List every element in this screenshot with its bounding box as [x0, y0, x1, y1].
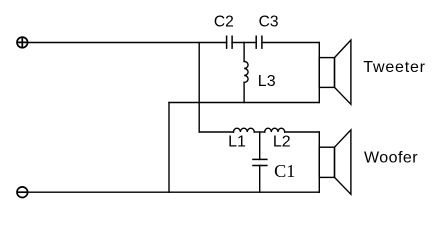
- svg-text:Tweeter: Tweeter: [363, 59, 426, 76]
- wire L2 to woofer corner: [285, 131, 320, 133]
- wire L1 to L2 with junction: [254, 131, 265, 133]
- speaker woofer symbol: [319, 130, 351, 194]
- terminal +: [17, 37, 28, 48]
- inductor L2: [265, 128, 285, 132]
- svg-text:C2: C2: [214, 13, 234, 30]
- wire tweeter right vertical: [318, 43, 320, 103]
- svg-text:L1: L1: [228, 134, 246, 151]
- capacitor C2: [227, 36, 233, 49]
- svg-text:Woofer: Woofer: [364, 150, 418, 167]
- svg-text:L2: L2: [273, 134, 291, 151]
- svg-text:L3: L3: [258, 73, 276, 90]
- wire C1 branch bottom: [259, 166, 261, 193]
- wire vertical from top rail junction down to woofer branch: [198, 43, 200, 133]
- wire bottom rail of top section: [169, 102, 319, 104]
- capacitor C1: [252, 159, 267, 165]
- node junction top rail to L3: [243, 43, 245, 62]
- wire bottom rail from - to woofer: [28, 191, 319, 193]
- svg-text:C3: C3: [259, 13, 279, 30]
- wire C3 to tweeter corner: [262, 42, 319, 44]
- wire L3 to bottom rail of top section: [243, 82, 245, 102]
- svg-text:C1: C1: [274, 161, 295, 181]
- wire left vertical from top section to minus rail: [168, 103, 170, 193]
- wire top rail from + to C2: [28, 42, 226, 44]
- wire lower branch to L1: [199, 131, 233, 133]
- speaker tweeter symbol: [319, 40, 351, 104]
- capacitor C3: [256, 36, 262, 49]
- inductor L1: [234, 128, 255, 132]
- inductor L3: [244, 61, 248, 82]
- wire C2 to C3: [232, 42, 256, 44]
- terminal -: [17, 187, 28, 198]
- wire C1 branch top: [259, 132, 261, 159]
- wire woofer right vertical: [318, 132, 320, 192]
